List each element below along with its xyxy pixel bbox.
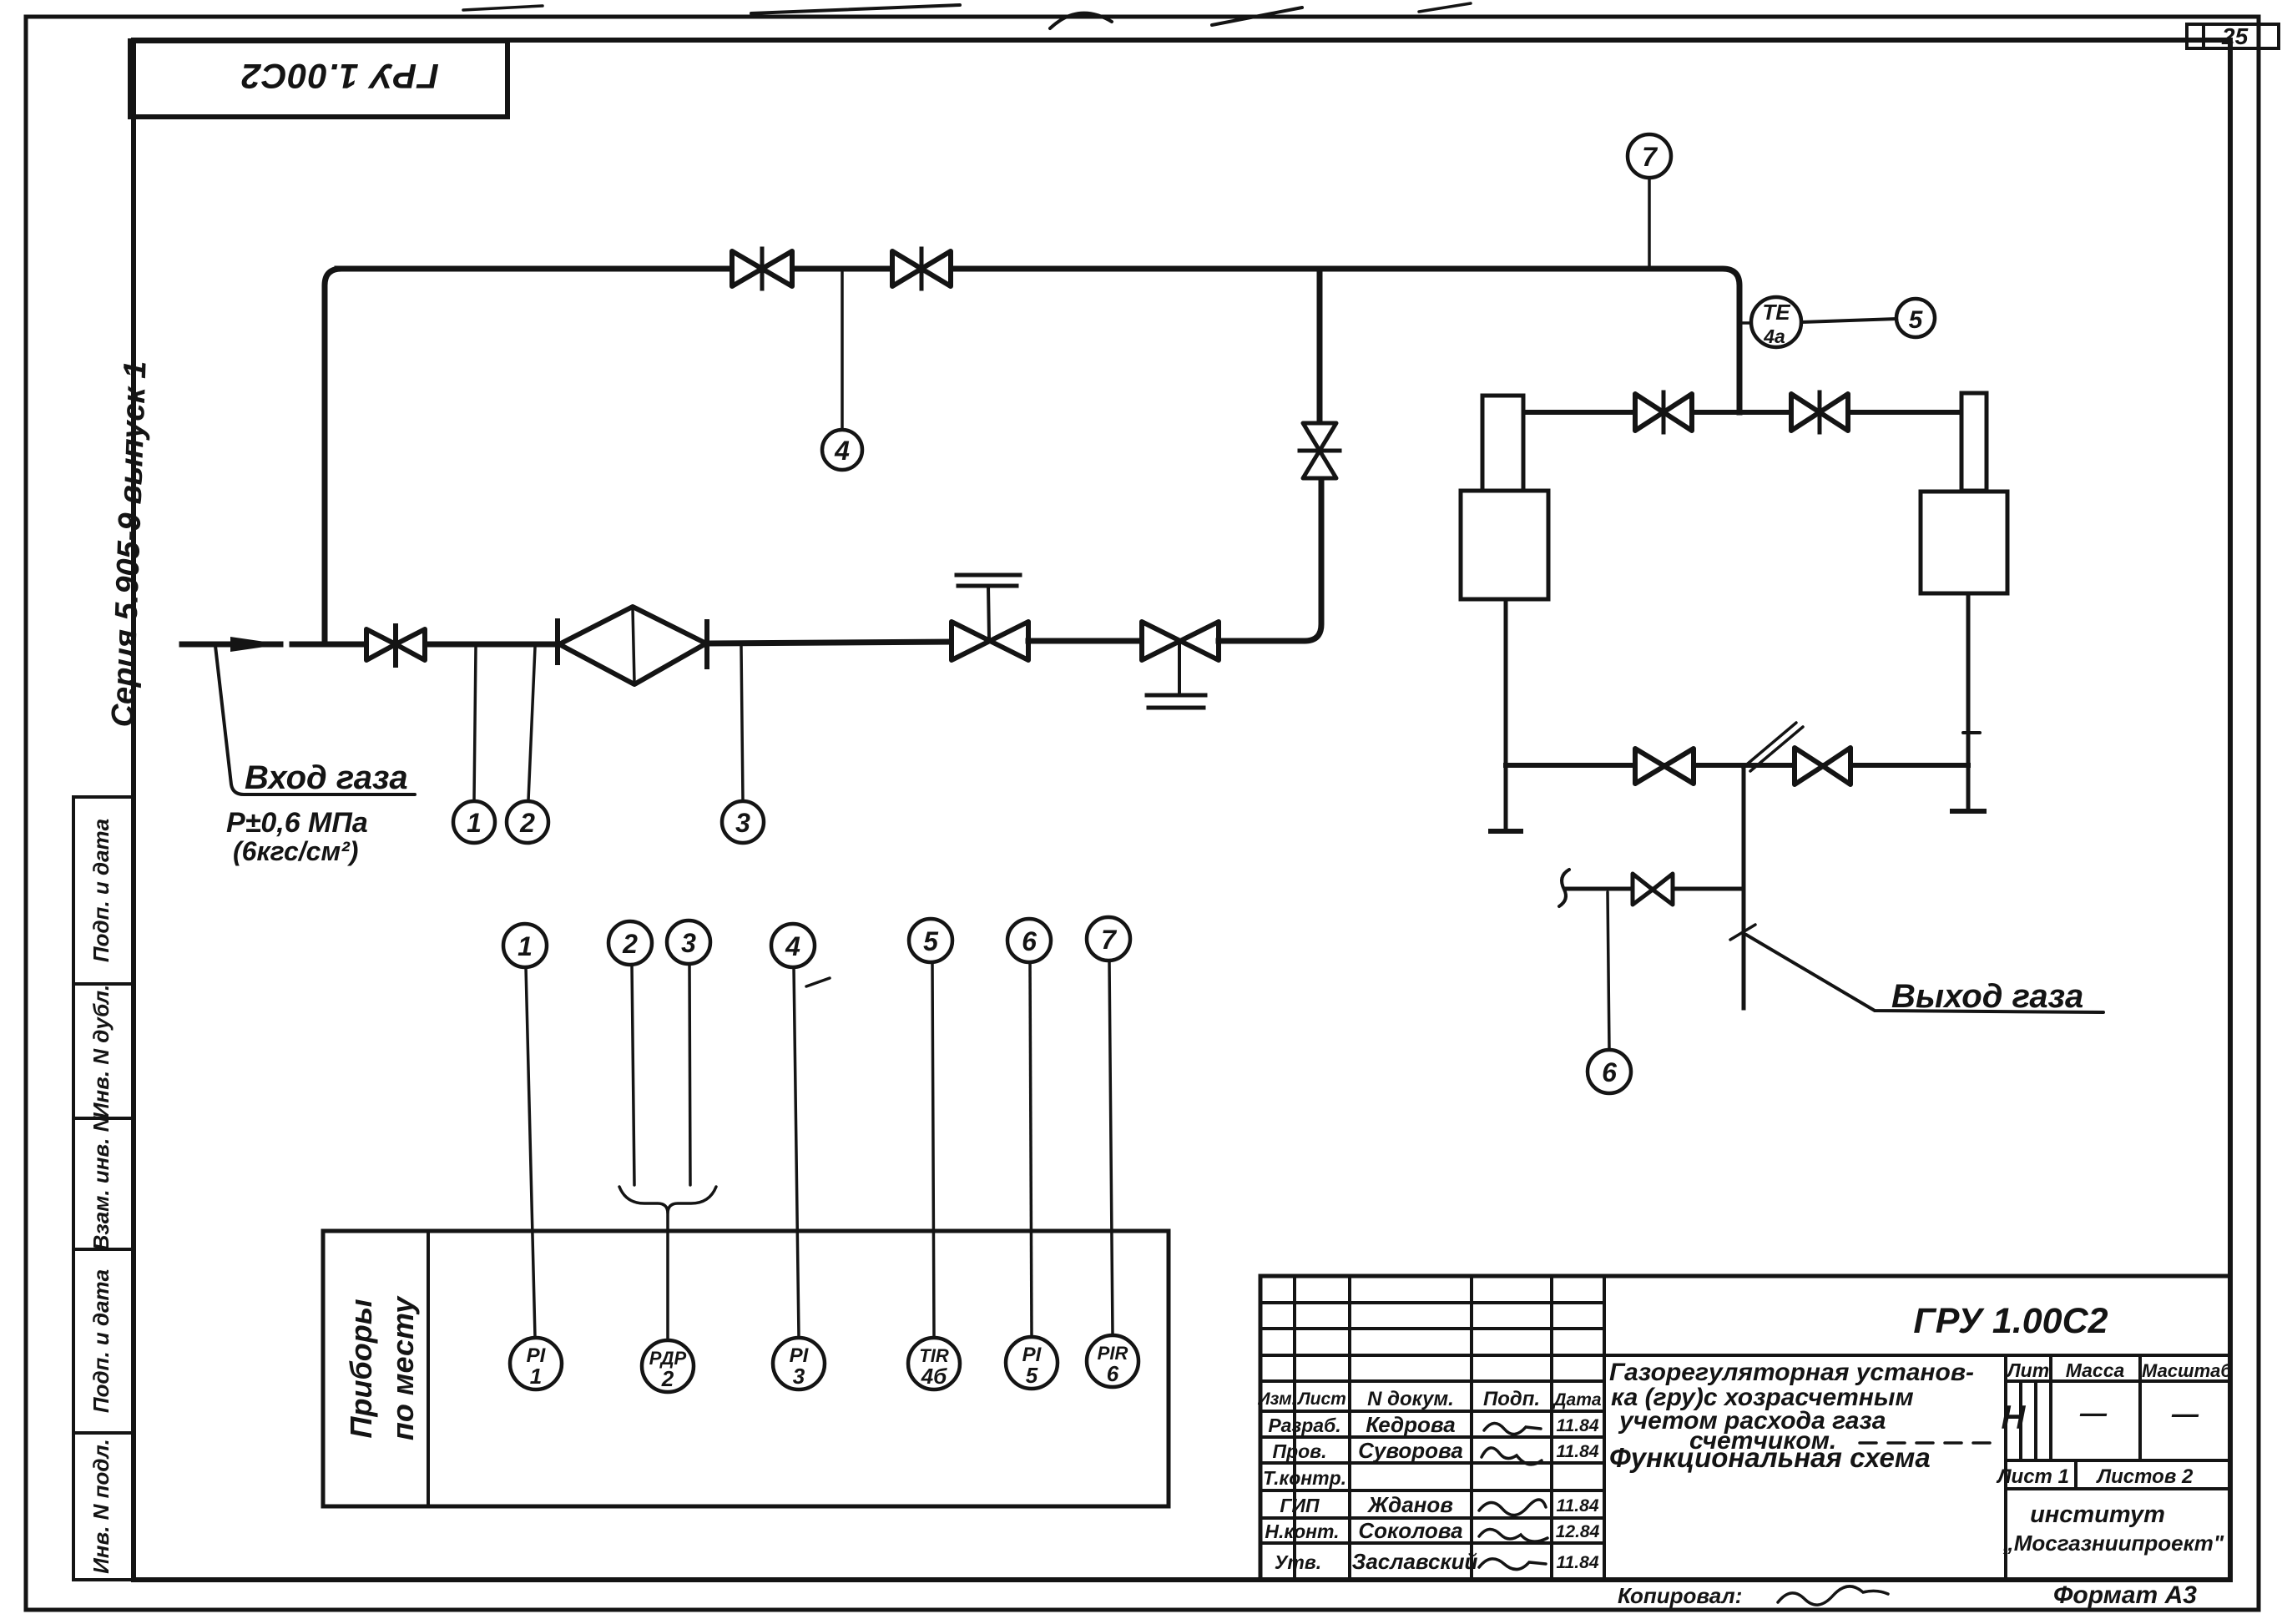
svg-text:Масштаб: Масштаб <box>2142 1360 2233 1381</box>
valve V1 <box>366 629 396 660</box>
wire bypass riser left <box>325 269 341 644</box>
svg-text:Суворова: Суворова <box>1358 1438 1463 1463</box>
wire main line to valve 1 <box>292 642 366 648</box>
svg-text:Жданов: Жданов <box>1366 1492 1453 1517</box>
tag circle 1 <box>503 924 547 967</box>
wire left device drop <box>1504 599 1508 830</box>
svg-text:Выход газа: Выход газа <box>1891 978 2083 1015</box>
svg-text:2: 2 <box>622 929 638 959</box>
svg-text:P±0,6 МПа: P±0,6 МПа <box>226 807 368 839</box>
top edge scratches <box>751 5 960 13</box>
title block frame <box>1260 1276 2230 1580</box>
svg-text:3: 3 <box>793 1364 805 1389</box>
tag line 4 <box>794 967 799 1337</box>
svg-text:Заславский: Заславский <box>1352 1549 1478 1574</box>
svg-text:5: 5 <box>1026 1363 1038 1388</box>
svg-text:Лист: Лист <box>1296 1389 1346 1409</box>
title block right part dividers <box>1604 1354 2230 1357</box>
tag line 2 <box>632 965 634 1185</box>
valve V2 with vent <box>952 622 990 660</box>
svg-text:Лист 1: Лист 1 <box>1996 1465 2069 1488</box>
svg-text:Подп. и дата: Подп. и дата <box>88 1269 114 1413</box>
tag circle 6 <box>1007 919 1051 962</box>
tag circle 2 <box>608 921 652 965</box>
svg-text:7: 7 <box>1101 925 1118 955</box>
node circle 2 <box>507 801 548 843</box>
svg-text:Масса: Масса <box>2066 1359 2125 1381</box>
svg-text:4: 4 <box>785 931 800 961</box>
svg-text:ГРУ 1.00С2: ГРУ 1.00С2 <box>240 57 439 96</box>
series label <box>105 361 153 728</box>
wire right device drop <box>1966 593 1971 809</box>
filter F1 <box>555 621 560 663</box>
left attribute table <box>73 797 134 1580</box>
wire main line filter to valve 2 <box>709 642 952 643</box>
instrument PI-3 <box>773 1338 825 1389</box>
svg-text:4а: 4а <box>1763 325 1785 347</box>
wire main inlet line <box>182 642 280 648</box>
wire main line to right riser <box>1219 478 1321 641</box>
svg-text:Копировал:: Копировал: <box>1618 1583 1742 1608</box>
impulse line to circle 3 <box>741 646 743 800</box>
wire TE to circle 5 <box>1801 319 1897 322</box>
svg-text:Инв. N подл.: Инв. N подл. <box>88 1439 114 1574</box>
node circle 7 <box>1628 134 1671 178</box>
svg-text:1: 1 <box>467 808 482 838</box>
device counter body <box>1482 396 1523 491</box>
tag line 7 <box>1109 961 1113 1334</box>
svg-text:Приборы: Приборы <box>344 1299 378 1438</box>
svg-text:2: 2 <box>661 1366 674 1391</box>
svg-text:11.84: 11.84 <box>1557 1553 1599 1572</box>
svg-text:Подп. и дата: Подп. и дата <box>88 819 114 962</box>
svg-text:5: 5 <box>923 926 939 956</box>
wire meter top line <box>1524 410 1961 415</box>
tick on outlet drop <box>1730 925 1755 940</box>
svg-text:ГРУ 1.00С2: ГРУ 1.00С2 <box>1913 1301 2108 1341</box>
valve RB <box>1791 394 1820 431</box>
svg-text:6: 6 <box>1602 1057 1617 1087</box>
tag line 3 <box>689 964 690 1185</box>
instrument TIR-4b <box>908 1338 960 1389</box>
valve V3 with drain <box>1142 622 1180 660</box>
svg-text:Функциональная схема: Функциональная схема <box>1609 1442 1931 1473</box>
svg-text:„Мосгазниипроект": „Мосгазниипроект" <box>2002 1531 2224 1556</box>
crossing slash marks <box>1743 723 1796 768</box>
valve B2 on bypass <box>892 251 921 286</box>
valve B1 on bypass <box>732 251 762 286</box>
svg-text:Кедрова: Кедрова <box>1366 1412 1455 1437</box>
svg-text:ТЕ: ТЕ <box>1762 300 1790 325</box>
node circle 3 <box>722 801 764 843</box>
svg-text:5: 5 <box>1909 306 1924 334</box>
svg-text:N докум.: N докум. <box>1367 1388 1454 1410</box>
svg-text:—: — <box>2079 1398 2108 1428</box>
tag line 1 <box>526 967 535 1337</box>
brace joining 2 and 3 <box>619 1187 716 1213</box>
svg-text:(6кгс/см²): (6кгс/см²) <box>233 836 358 866</box>
svg-text:институт: институт <box>2030 1501 2165 1528</box>
leader to outlet label <box>1746 935 2103 1012</box>
svg-text:7: 7 <box>1642 142 1658 172</box>
node circle 6 <box>1588 1050 1631 1093</box>
svg-text:11.84: 11.84 <box>1557 1416 1599 1435</box>
svg-text:2: 2 <box>519 808 535 838</box>
tag line 6 <box>1030 962 1032 1336</box>
valve V4 vertical <box>1303 423 1336 451</box>
svg-text:11.84: 11.84 <box>1557 1496 1599 1516</box>
valve RA <box>1635 394 1664 431</box>
wire main line valve2 to valve3 <box>1028 638 1142 644</box>
instrument PIR-6 <box>1087 1335 1138 1387</box>
small scribble near circle 4 tag <box>806 978 830 986</box>
inlet leader and label <box>215 646 415 794</box>
svg-text:6: 6 <box>1022 926 1037 956</box>
svg-text:Вход газа: Вход газа <box>245 759 408 796</box>
svg-text:3: 3 <box>681 928 696 958</box>
svg-text:Лит: Лит <box>2006 1359 2049 1381</box>
tag circle 5 <box>909 919 952 962</box>
svg-text:1: 1 <box>517 931 533 961</box>
local instruments panel <box>323 1231 1169 1506</box>
mirrored stamp text <box>240 57 439 96</box>
tag circle 4 <box>771 924 815 967</box>
stamp box top-left <box>130 41 507 117</box>
svg-text:4б: 4б <box>921 1364 947 1389</box>
svg-text:по месту: по месту <box>386 1295 420 1440</box>
valve E <box>1633 874 1653 905</box>
impulse line to circle 1 <box>474 648 476 800</box>
svg-text:ГИП: ГИП <box>1280 1495 1320 1516</box>
brace stem <box>666 1213 669 1339</box>
wire lower outlet header <box>1506 763 1968 768</box>
wire riser above vertical valve <box>1317 269 1323 423</box>
connector to TE <box>1739 321 1751 325</box>
svg-text:Взам. инв. N: Взам. инв. N <box>88 1115 114 1250</box>
node circle 5 <box>1896 299 1935 337</box>
svg-text:Подп.: Подп. <box>1483 1388 1540 1410</box>
svg-text:Инв. N дубл.: Инв. N дубл. <box>88 985 114 1119</box>
svg-text:25: 25 <box>2221 23 2249 49</box>
node circle 1 <box>453 801 495 843</box>
impulse line to circle 2 <box>528 648 535 800</box>
svg-text:Т.контр.: Т.контр. <box>1263 1467 1346 1489</box>
instrument PI-5 <box>1006 1337 1058 1389</box>
wire bypass line <box>337 269 1739 412</box>
svg-text:Листов 2: Листов 2 <box>2096 1465 2194 1488</box>
impulse line to circle 6 <box>1608 892 1609 1050</box>
instrument PI-1 <box>510 1338 562 1389</box>
blowdown end curl <box>1559 870 1569 906</box>
wire main line valve1 to filter <box>396 642 558 648</box>
impulse line to circle 4 <box>841 272 844 430</box>
device regulator body <box>1961 393 1987 491</box>
svg-text:3: 3 <box>735 808 750 838</box>
valve D <box>1795 748 1823 784</box>
valve C <box>1635 749 1664 784</box>
svg-text:Утв.: Утв. <box>1275 1551 1321 1573</box>
wire blowdown line <box>1566 887 1744 891</box>
svg-text:—: — <box>2171 1399 2199 1429</box>
svg-text:1: 1 <box>530 1364 542 1389</box>
page number box 25 <box>2187 24 2279 48</box>
svg-text:Дата: Дата <box>1552 1390 1602 1410</box>
svg-text:6: 6 <box>1107 1361 1119 1386</box>
impulse line to circle 7 <box>1648 178 1651 265</box>
svg-text:Н.конт.: Н.конт. <box>1265 1521 1339 1542</box>
svg-text:12.84: 12.84 <box>1556 1522 1600 1541</box>
svg-text:Разраб.: Разраб. <box>1268 1415 1340 1436</box>
svg-text:Изм.: Изм. <box>1258 1389 1297 1409</box>
svg-text:Газорегуляторная установ-: Газорегуляторная установ- <box>1609 1359 1974 1386</box>
tag circle 3 <box>667 920 710 964</box>
instrument RDR-2 <box>642 1340 694 1392</box>
svg-text:4: 4 <box>834 436 850 466</box>
instrument TE 4a <box>1751 297 1801 347</box>
svg-text:Соколова: Соколова <box>1358 1518 1462 1543</box>
inlet flow arrow <box>230 637 282 652</box>
wire outlet drop <box>1742 765 1746 1008</box>
svg-text:Формат А3: Формат А3 <box>2053 1581 2197 1609</box>
svg-text:Н: Н <box>2002 1400 2027 1436</box>
tag line 5 <box>932 962 934 1337</box>
svg-text:Пров.: Пров. <box>1273 1440 1327 1462</box>
svg-text:11.84: 11.84 <box>1557 1442 1599 1461</box>
node circle 4 <box>822 430 862 470</box>
tag circle 7 <box>1087 917 1130 961</box>
